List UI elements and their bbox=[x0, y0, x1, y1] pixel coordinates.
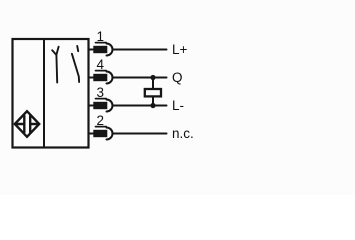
svg-text:4: 4 bbox=[97, 57, 105, 72]
wire n.c. bbox=[113, 133, 167, 135]
wire L- bbox=[113, 105, 167, 107]
svg-text:n.c.: n.c. bbox=[172, 126, 194, 141]
wire pin1 stub bbox=[89, 49, 96, 51]
wire pin4 stub bbox=[89, 77, 96, 79]
sensor body divider bbox=[43, 39, 45, 148]
svg-text:3: 3 bbox=[97, 85, 105, 100]
wire Q bbox=[113, 77, 167, 79]
junction node on L- bbox=[150, 103, 155, 108]
capacitive sensor symbol (diamond) bbox=[15, 111, 39, 137]
wire pin3 stub bbox=[89, 105, 96, 107]
load resistor RL body bbox=[145, 89, 161, 96]
svg-text:1: 1 bbox=[97, 29, 105, 44]
svg-text:L+: L+ bbox=[172, 42, 188, 57]
switch contact S2 (right, with tick) bbox=[72, 46, 79, 82]
connector pin 2 (plug contact) bbox=[94, 127, 112, 140]
connector pin 1 (plug contact) bbox=[94, 43, 112, 56]
capacitor plates inside diamond bbox=[16, 116, 39, 132]
switch contact S1 (left, with fork) bbox=[52, 47, 58, 83]
connector pin 3 (plug contact) bbox=[94, 99, 112, 112]
sensor body outline bbox=[13, 39, 89, 148]
svg-text:Q: Q bbox=[172, 70, 183, 85]
load resistor RL branch wire bbox=[152, 78, 154, 106]
svg-text:L-: L- bbox=[172, 98, 184, 113]
svg-text:2: 2 bbox=[97, 113, 105, 128]
wire L+ bbox=[113, 49, 167, 51]
junction node on Q bbox=[150, 75, 155, 80]
wire pin2 stub bbox=[89, 133, 96, 135]
connector pin 4 (plug contact) bbox=[94, 71, 112, 84]
